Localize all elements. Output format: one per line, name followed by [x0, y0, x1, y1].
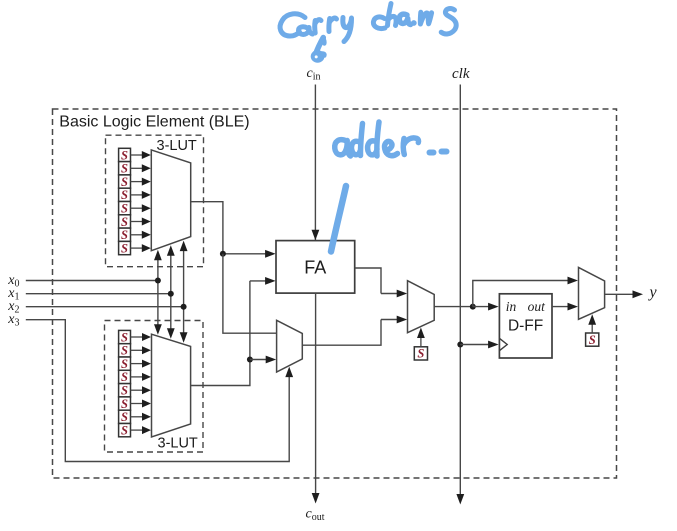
wire y output — [605, 290, 643, 298]
SRAM cell S10 (lower LUT) — [119, 344, 151, 358]
wire select x2 vertical between LUTs — [180, 241, 188, 343]
svg-text:D-FF: D-FF — [508, 318, 543, 335]
svg-text:S: S — [121, 397, 128, 411]
junction x0 — [155, 278, 161, 284]
SRAM cell S6 (upper LUT) — [119, 215, 151, 229]
wire x3 route to carry mux select — [26, 320, 293, 462]
svg-text:in: in — [506, 299, 517, 314]
flip-flop D-FF — [499, 294, 552, 358]
junction upper LUT output — [220, 251, 226, 257]
SRAM cell S2 (upper LUT) — [119, 162, 151, 176]
svg-text:S: S — [121, 410, 128, 424]
svg-text:S: S — [121, 370, 128, 384]
svg-text:S: S — [121, 148, 128, 162]
mux body lower 3-LUT — [152, 334, 191, 437]
label Basic Logic Element (BLE) — [59, 113, 249, 130]
wire lower LUT output to FA input b — [191, 277, 276, 386]
SRAM cell S8 (upper LUT) — [119, 241, 151, 255]
svg-text:S: S — [589, 333, 596, 347]
svg-text:S: S — [121, 228, 128, 242]
junction clk to D-FF — [457, 342, 463, 348]
node x0 label — [7, 273, 19, 290]
label 3-LUT (lower) — [158, 436, 198, 452]
SRAM cell S11 (lower LUT) — [119, 357, 151, 371]
SRAM cell S (output mux select) — [586, 314, 599, 347]
svg-text:S: S — [121, 423, 128, 437]
wire clk to D-FF clock input — [460, 341, 498, 349]
svg-text:y: y — [648, 284, 658, 301]
SRAM cell S3 (upper LUT) — [119, 175, 151, 189]
wire c_in vertical into FA — [312, 85, 320, 241]
wire x1 horizontal — [26, 293, 171, 295]
SRAM cell S13 (lower LUT) — [119, 384, 151, 398]
3-LUT lower dashed box — [105, 321, 204, 453]
label 3-LUT (upper) — [157, 138, 197, 154]
junction lower LUT output — [247, 357, 253, 363]
svg-text:3-LUT: 3-LUT — [158, 436, 198, 452]
wire select x1 vertical between LUTs — [167, 245, 175, 339]
node y label — [648, 284, 658, 301]
svg-text:S: S — [121, 384, 128, 398]
wire node bypass to output mux input 0 — [473, 277, 578, 307]
SRAM cell S14 (lower LUT) — [119, 397, 151, 411]
node x3 label — [7, 312, 19, 329]
wire x0 horizontal — [26, 280, 158, 282]
wire D-FF out to output mux input 1 — [552, 303, 578, 311]
svg-text:S: S — [121, 344, 128, 358]
mux output-select U3 — [579, 267, 605, 319]
svg-text:clk: clk — [452, 66, 470, 82]
SRAM cell S15 (lower LUT) — [119, 410, 151, 424]
svg-text:S: S — [121, 175, 128, 189]
wire upper LUT output to FA input a — [191, 202, 276, 258]
svg-text:S: S — [121, 357, 128, 371]
node c_out label — [306, 507, 325, 524]
node clk label — [452, 66, 470, 82]
wire select x0 vertical between LUTs — [154, 250, 162, 335]
svg-text:FA: FA — [304, 258, 326, 278]
node x2 label — [7, 299, 19, 316]
svg-text:S: S — [121, 241, 128, 255]
SRAM cell S9 (lower LUT) — [119, 330, 151, 344]
mux sum-select U2 — [408, 281, 435, 333]
node c_in label — [307, 66, 321, 83]
SRAM cell S (sum mux select) — [414, 328, 427, 361]
wire x2 horizontal — [26, 306, 184, 308]
svg-text:S: S — [417, 347, 424, 361]
node x1 label — [7, 286, 19, 303]
annotation handwriting carry chains / adder / pen stroke — [280, 4, 456, 252]
mux body upper 3-LUT — [151, 150, 190, 251]
wire sum mux output — [434, 306, 473, 308]
wire carry mux output to sum mux input 1 — [302, 316, 407, 346]
wire c_out from FA bottom — [312, 293, 320, 503]
BLE boundary (dashed box) — [53, 109, 617, 478]
3-LUT upper dashed box — [106, 135, 204, 267]
wire FA output to sum mux input 0 — [355, 268, 408, 297]
svg-text:S: S — [121, 202, 128, 216]
svg-text:S: S — [121, 330, 128, 344]
wire lower LUT output to carry mux input 1 — [250, 356, 276, 364]
svg-text:out: out — [528, 299, 547, 314]
wire upper LUT output down to carry mux input 0 — [223, 254, 276, 333]
SRAM cell S4 (upper LUT) — [119, 188, 151, 202]
SRAM cell S7 (upper LUT) — [119, 228, 151, 242]
SRAM cell S16 (lower LUT) — [119, 423, 151, 437]
svg-text:S: S — [121, 215, 128, 229]
wire clk vertical — [456, 85, 464, 505]
junction x1 — [168, 291, 174, 297]
junction x2 — [181, 304, 187, 310]
svg-text:S: S — [121, 188, 128, 202]
full adder FA — [276, 241, 355, 294]
SRAM cell S12 (lower LUT) — [119, 370, 151, 384]
SRAM cell S5 (upper LUT) — [119, 202, 151, 216]
wire node to D-FF in — [473, 303, 499, 311]
mux carry-select (after LUTs) — [277, 320, 303, 372]
junction BLE internal node — [470, 304, 476, 310]
SRAM cell S1 (upper LUT) — [119, 148, 151, 162]
svg-text:S: S — [121, 162, 128, 176]
svg-text:3-LUT: 3-LUT — [157, 138, 197, 154]
svg-text:Basic Logic Element (BLE): Basic Logic Element (BLE) — [59, 113, 249, 130]
